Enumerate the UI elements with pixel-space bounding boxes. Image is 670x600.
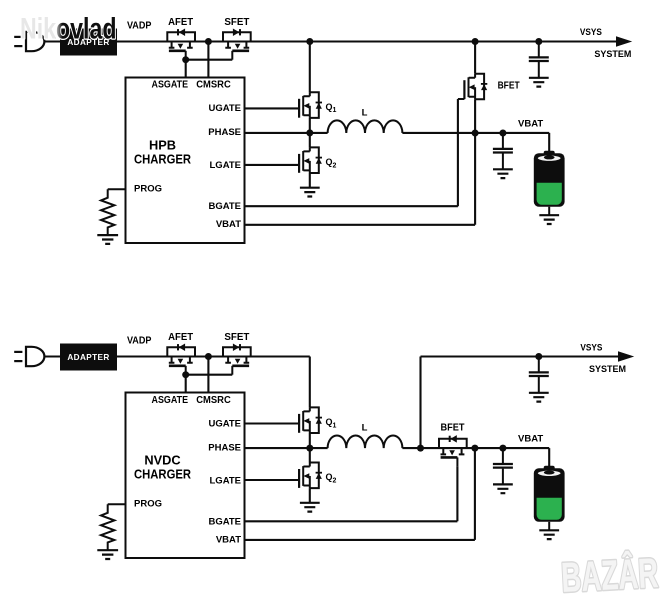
transistor Q2 bottom — [299, 463, 322, 489]
ground below battery BT2 — [539, 530, 559, 539]
wire Q2 drain — [309, 448, 311, 462]
inductor L — [328, 120, 403, 133]
adapter A2 — [60, 344, 117, 371]
svg-text:L: L — [362, 108, 368, 119]
battery BT2 — [534, 466, 565, 530]
svg-text:VADP: VADP — [127, 336, 152, 347]
wire VADP rail to VSYS arrow — [44, 40, 616, 42]
wire BGATE to BFET gate — [245, 99, 465, 206]
junction node VBAT bottom — [471, 445, 478, 452]
transistor Q1 bottom — [299, 407, 322, 433]
transistor BFET — [464, 74, 487, 100]
svg-text:ASGATE: ASGATE — [152, 80, 189, 91]
junction CMSRC rail bottom — [205, 353, 212, 360]
plug P1 — [14, 32, 44, 51]
svg-text:PHASE: PHASE — [208, 127, 241, 138]
wire Q1 source — [309, 433, 311, 448]
junction ASGATE node — [182, 56, 189, 63]
svg-text:ADAPTER: ADAPTER — [67, 353, 109, 362]
node VSYS arrow — [616, 36, 632, 46]
battery BT1 — [534, 151, 565, 215]
svg-text:PROG: PROG — [134, 499, 162, 510]
wire VSYS riser at inductor output — [419, 357, 421, 449]
wire VBAT pin riser — [245, 133, 476, 225]
wire PROG — [108, 188, 126, 190]
junction node VBAT — [472, 130, 479, 137]
transistor BFET bottom — [439, 435, 467, 466]
svg-text:BGATE: BGATE — [208, 516, 241, 527]
adapter A1 — [60, 29, 117, 56]
transistor SFET bottom — [223, 344, 251, 375]
wire CMSRC riser — [207, 357, 209, 393]
wire CMSRC riser — [207, 42, 209, 78]
svg-text:VSYS: VSYS — [580, 342, 602, 352]
transistor AFET bottom — [167, 344, 195, 375]
svg-text:SFET: SFET — [224, 332, 249, 343]
wire BFET drain — [474, 42, 476, 74]
wire VSYS rail — [421, 355, 619, 357]
wire BFET source — [474, 99, 476, 133]
wire LGATE — [245, 164, 300, 166]
transistor AFET — [167, 29, 195, 60]
svg-text:SYSTEM: SYSTEM — [589, 364, 626, 374]
ground below Q2 — [300, 188, 320, 197]
junction VSYS cap rail bottom — [535, 353, 542, 360]
svg-text:CHARGER: CHARGER — [134, 152, 191, 167]
wire PROG bottom — [108, 503, 126, 505]
wire PHASE — [245, 132, 310, 134]
svg-text:CMSRC: CMSRC — [196, 395, 231, 406]
junction node PHASE — [306, 129, 313, 136]
svg-text:UGATE: UGATE — [208, 418, 241, 429]
svg-text:BAZÂR: BAZÂR — [560, 548, 659, 600]
svg-text:VBAT: VBAT — [216, 534, 241, 545]
inductor L bottom — [328, 436, 403, 449]
wire VADP rail to Q1 drain — [44, 357, 310, 408]
junction CMSRC rail — [205, 38, 212, 45]
junction Q1 drain rail — [306, 38, 313, 45]
svg-text:SYSTEM: SYSTEM — [594, 49, 631, 59]
wire ASGATE node riser and gate tie — [186, 60, 233, 78]
wire UGATE — [245, 107, 300, 109]
svg-text:LGATE: LGATE — [210, 160, 242, 171]
svg-text:CMSRC: CMSRC — [196, 80, 231, 91]
junction VBAT cap — [499, 130, 506, 137]
ground below battery BT1 — [539, 215, 559, 224]
transistor Q1 — [299, 92, 322, 118]
capacitor C2 at VBAT — [493, 133, 513, 178]
svg-text:VBAT: VBAT — [518, 119, 543, 130]
svg-text:VSYS: VSYS — [580, 27, 602, 37]
wire Q1 source — [309, 118, 311, 133]
svg-text:PHASE: PHASE — [208, 442, 241, 453]
wire PHASE — [245, 447, 310, 449]
svg-text:Nikovlad: Nikovlad — [20, 13, 117, 46]
IC U1 HPB CHARGER block — [126, 78, 245, 244]
svg-text:HPB: HPB — [149, 138, 176, 153]
wire Q1 drain — [309, 42, 311, 93]
wire UGATE — [245, 422, 300, 424]
wire inductor to battery — [402, 133, 549, 153]
node VSYS arrow bottom — [618, 351, 634, 361]
svg-text:CHARGER: CHARGER — [134, 467, 191, 482]
svg-text:BGATE: BGATE — [208, 201, 241, 212]
wire PHASE node to inductor — [310, 447, 328, 449]
svg-text:Q2: Q2 — [326, 157, 337, 169]
wire Q2 drain — [309, 133, 311, 148]
transistor SFET — [223, 29, 251, 60]
wire ASGATE node riser and gate tie — [186, 375, 233, 393]
svg-text:ASGATE: ASGATE — [152, 395, 189, 406]
junction ASGATE node bottom — [182, 371, 189, 378]
plug P2 — [14, 347, 44, 366]
svg-text:AFET: AFET — [168, 332, 193, 343]
resistor R2 — [97, 504, 118, 559]
junction node PHASE bottom — [306, 445, 313, 452]
junction VSYS cap rail — [535, 38, 542, 45]
wire Q2 source — [309, 173, 311, 188]
svg-text:PROG: PROG — [134, 184, 162, 195]
wire VBAT pin riser — [245, 448, 475, 540]
junction VBAT cap bottom — [499, 445, 506, 452]
svg-text:BFET: BFET — [498, 81, 520, 92]
junction BFET drain rail — [472, 38, 479, 45]
ground below Q2 bottom — [300, 503, 320, 512]
resistor R1 — [97, 189, 118, 244]
wire LGATE — [245, 479, 300, 481]
wire BGATE to BFET gate — [245, 466, 458, 521]
capacitor C4 at VBAT bottom — [493, 448, 513, 493]
wire PHASE node to inductor — [310, 132, 328, 134]
svg-text:Q1: Q1 — [326, 417, 337, 429]
IC U2 NVDC CHARGER block — [126, 393, 245, 559]
svg-text:AFET: AFET — [168, 17, 193, 28]
wire Q2 source — [309, 488, 311, 503]
svg-text:Q2: Q2 — [326, 472, 337, 484]
svg-text:VBAT: VBAT — [216, 219, 241, 230]
svg-text:SFET: SFET — [224, 17, 249, 28]
svg-text:BFET: BFET — [441, 423, 465, 434]
svg-text:UGATE: UGATE — [208, 103, 241, 114]
svg-text:LGATE: LGATE — [210, 475, 242, 486]
transistor Q2 — [299, 147, 322, 173]
svg-text:NVDC: NVDC — [144, 453, 180, 468]
capacitor C3 at VSYS bottom — [529, 357, 549, 402]
svg-text:VADP: VADP — [127, 20, 152, 31]
capacitor C1 at VSYS — [529, 42, 549, 87]
wire inductor through BFET to battery — [402, 448, 549, 468]
svg-text:Q1: Q1 — [326, 102, 337, 114]
svg-text:L: L — [362, 423, 368, 434]
svg-text:VBAT: VBAT — [518, 434, 543, 445]
junction inductor VSYS riser — [417, 445, 424, 452]
